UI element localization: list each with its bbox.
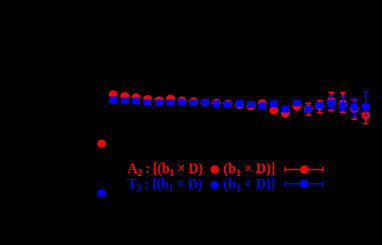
svg-text:(b1 × D)]: (b1 × D)] (223, 177, 275, 195)
svg-text:T2 : [(b1 × D): T2 : [(b1 × D) (127, 177, 202, 195)
